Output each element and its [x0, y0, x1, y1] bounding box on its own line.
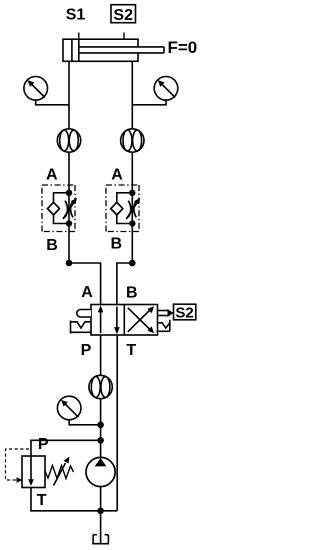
- node A junction: [66, 260, 73, 267]
- wire left rail upper: [68, 61, 70, 263]
- node right FCV top: [129, 190, 135, 196]
- label S2 top box: [111, 5, 136, 24]
- wire gauge1 stem: [36, 100, 69, 105]
- valve solenoid right: [158, 309, 174, 317]
- svg-text:S1: S1: [66, 7, 86, 24]
- svg-text:B: B: [111, 236, 123, 253]
- relief valve pilot line: [6, 449, 30, 480]
- flow control valve right box: [106, 185, 139, 232]
- svg-text:B: B: [126, 285, 138, 302]
- gauge 2: [154, 77, 178, 101]
- wire B link: [117, 263, 132, 305]
- svg-text:A: A: [111, 167, 123, 184]
- svg-text:A: A: [46, 167, 58, 184]
- node T return junction: [97, 508, 104, 515]
- cylinder piston: [72, 39, 79, 61]
- node gauge3 tap: [97, 422, 104, 429]
- valve manual override pin left: [77, 310, 91, 318]
- svg-text:S2: S2: [113, 7, 133, 24]
- wire P below valve: [100, 335, 102, 376]
- valve left square arrows: [98, 305, 120, 334]
- wire pump to tank: [100, 486, 102, 544]
- wire A link: [69, 263, 101, 305]
- cylinder rod: [79, 47, 164, 53]
- flow control valve left box: [42, 185, 75, 232]
- flow meter 2: [121, 129, 144, 152]
- svg-text:B: B: [46, 237, 58, 254]
- valve override notch box right: [158, 320, 170, 332]
- svg-text:T: T: [37, 492, 47, 509]
- svg-text:F=0: F=0: [168, 38, 198, 57]
- node right FCV bottom: [129, 220, 135, 226]
- relief valve adjust arrow: [54, 457, 70, 486]
- valve override notch box left: [71, 321, 92, 334]
- tank: [93, 535, 108, 544]
- directional valve body: [91, 305, 158, 336]
- svg-text:S2: S2: [175, 305, 193, 322]
- wire gauge3 stem: [69, 420, 100, 425]
- gauge 1: [24, 77, 48, 101]
- left FCV throttle: [63, 198, 77, 219]
- pump: [86, 457, 115, 486]
- wire P to pump: [100, 399, 102, 459]
- sensor tick S1: [78, 33, 80, 39]
- relief valve body: [22, 456, 45, 488]
- right FCV throttle: [126, 198, 140, 219]
- left FCV check branch: [48, 193, 70, 224]
- right FCV check branch: [111, 193, 133, 224]
- wire T rail: [116, 335, 118, 511]
- svg-text:A: A: [81, 284, 93, 301]
- node B junction: [129, 260, 136, 267]
- node left FCV bottom: [66, 220, 72, 226]
- svg-text:T: T: [126, 342, 136, 359]
- node relief tap: [97, 437, 104, 444]
- relief pilot arrowhead: [17, 477, 23, 482]
- valve right square crossed arrows: [128, 306, 154, 333]
- wire right rail upper: [131, 61, 133, 263]
- solenoid label box S2: [174, 304, 196, 320]
- node left FCV top: [66, 190, 72, 196]
- svg-text:P: P: [81, 342, 92, 359]
- wire gauge2 stem: [132, 100, 166, 105]
- flow meter 3: [89, 375, 112, 398]
- wire relief T return: [31, 488, 117, 511]
- wire relief branch P: [31, 440, 101, 456]
- flow meter 1: [57, 129, 80, 152]
- relief valve spring: [45, 466, 74, 479]
- gauge 3: [57, 396, 81, 420]
- sensor tick S2: [123, 33, 125, 39]
- cylinder body: [63, 39, 138, 61]
- svg-text:P: P: [38, 436, 49, 453]
